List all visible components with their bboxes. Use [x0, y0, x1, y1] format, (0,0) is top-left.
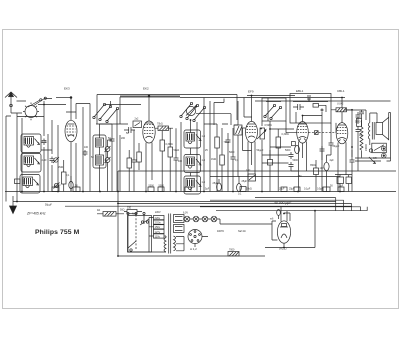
resistor R11 plate	[331, 108, 352, 157]
wire chassis bus	[5, 191, 396, 193]
decoupling box D2	[73, 187, 80, 192]
svg-text:3000: 3000	[23, 178, 25, 184]
svg-text:4-30: 4-30	[42, 159, 47, 162]
wire EF9 top lead	[247, 96, 295, 122]
decoupling box D6	[240, 187, 246, 192]
svg-text:0,3MΩ: 0,3MΩ	[166, 143, 173, 146]
wire stage1 left vertical	[6, 113, 22, 202]
svg-text:0,1µF: 0,1µF	[55, 185, 62, 188]
svg-text:0,1µF: 0,1µF	[304, 188, 311, 191]
wire bus AVC	[118, 170, 396, 172]
wire mixer verticals	[117, 97, 120, 192]
capacitor C15	[226, 133, 231, 192]
capacitor C11	[174, 128, 179, 191]
oscillator coil L4	[186, 120, 195, 155]
decoupling box D5	[185, 187, 191, 192]
mains input circles	[127, 212, 145, 214]
EBL1 stage outline	[290, 94, 331, 124]
wire EBL1 internals	[293, 98, 328, 124]
capacitor C23 electrolytic	[295, 146, 300, 154]
IF transformer T1 coils	[96, 124, 104, 192]
trimmer C14 arrow	[196, 159, 201, 165]
wire right bus hooks	[118, 198, 367, 211]
coil enclosure B	[21, 154, 41, 173]
decoupling box D10	[338, 187, 344, 192]
capacitor C24 electrolytic	[324, 155, 329, 192]
svg-text:0,5MΩ: 0,5MΩ	[265, 124, 272, 127]
volume potentiometer R7	[257, 128, 266, 139]
svg-text:150v: 150v	[155, 225, 161, 229]
coil L7	[234, 125, 242, 135]
wire IF3 verticals	[238, 98, 244, 177]
trimmer C5b	[54, 183, 60, 189]
svg-text:3000: 3000	[24, 156, 26, 162]
svg-text:20µµF: 20µµF	[333, 145, 340, 148]
svg-text:50Ω: 50Ω	[120, 209, 125, 212]
output transformer core	[372, 122, 374, 140]
svg-text:220V: 220V	[155, 211, 161, 214]
wire right edge	[389, 113, 391, 162]
svg-text:3000: 3000	[24, 137, 26, 143]
resistor R17	[357, 118, 362, 126]
mains wires	[128, 215, 144, 253]
decoupling box D4	[158, 187, 164, 192]
wire bus screen	[210, 176, 340, 178]
svg-text:EK3: EK3	[64, 87, 70, 91]
svg-text:25µF: 25µF	[213, 182, 219, 185]
osc coil enclosure B	[184, 155, 201, 173]
decoupling box D1	[52, 187, 59, 192]
coil L2	[24, 156, 34, 167]
svg-text:50kΩ: 50kΩ	[174, 149, 180, 152]
mains switch	[128, 241, 136, 251]
junction dots mid	[99, 95, 353, 257]
wire top tie right	[255, 100, 391, 102]
wire B+ drop	[265, 211, 315, 248]
trimmer C2 arrow	[35, 158, 40, 164]
coil enclosure C	[20, 175, 40, 194]
tube V2 EK2	[143, 95, 155, 191]
svg-text:6,3V: 6,3V	[183, 212, 188, 215]
band switch S1	[23, 97, 46, 120]
decoupling box D3	[148, 187, 154, 192]
variable capacitor C12	[186, 105, 197, 115]
voltage selector	[140, 219, 149, 225]
IF unit box	[133, 121, 142, 128]
svg-text:25µF: 25µF	[242, 180, 248, 183]
svg-text:150: 150	[298, 175, 303, 178]
mains box	[128, 216, 152, 253]
svg-text:20kΩ: 20kΩ	[246, 188, 252, 191]
svg-text:5000: 5000	[355, 121, 361, 124]
oscillator coil L6	[186, 179, 195, 190]
switch link dashed	[135, 215, 137, 250]
EBL1 box marks	[313, 104, 326, 113]
resistor R0	[15, 179, 21, 184]
svg-text:70kΩ: 70kΩ	[157, 123, 163, 126]
capacitor C21	[289, 152, 294, 159]
capacitor C10 coupling	[124, 127, 135, 133]
wire IF2 verticals	[210, 101, 222, 192]
wire jack bottom	[355, 158, 391, 161]
oscillator switch SA	[93, 101, 141, 124]
capacitor C17 electrolytic	[217, 179, 222, 191]
svg-text:100: 100	[84, 146, 89, 149]
wire bus heater	[65, 205, 352, 207]
field coil zigzag	[360, 120, 363, 158]
wire det ties	[262, 121, 291, 163]
pilot lamp P1	[184, 216, 190, 222]
svg-text:1MΩ: 1MΩ	[211, 158, 216, 161]
capacitor C28 electrolytic	[277, 210, 281, 220]
svg-text:5000: 5000	[159, 185, 165, 188]
trimmer C14b arrow	[196, 181, 201, 187]
svg-text:4-30: 4-30	[42, 140, 47, 143]
transformer HT secondary	[174, 236, 185, 251]
wire stage1 extra	[41, 134, 88, 192]
detector box	[262, 98, 286, 121]
resistor R8	[270, 129, 294, 192]
resistor R15	[127, 150, 132, 192]
capacitor C22	[289, 162, 299, 171]
wire det area	[262, 98, 268, 192]
tube V5 CBL1	[336, 123, 348, 192]
cathode capacitor C33	[292, 142, 296, 146]
svg-text:7000: 7000	[229, 249, 235, 252]
capacitor C29	[132, 130, 137, 192]
svg-text:50µµF: 50µµF	[45, 204, 52, 207]
capacitor C3	[42, 139, 47, 146]
wire speaker top	[344, 110, 377, 123]
svg-text:0,5µF: 0,5µF	[317, 188, 324, 191]
heater winding boxes	[174, 215, 185, 233]
svg-text:4Ω: 4Ω	[97, 209, 100, 212]
wire input top	[17, 99, 67, 117]
IF transformer T1 enclosure	[93, 135, 106, 168]
coil L1	[24, 137, 34, 148]
voltage selector stack	[149, 216, 164, 253]
wire stage1 right verticals	[76, 104, 90, 192]
svg-text:5000: 5000	[149, 185, 155, 188]
svg-text:100: 100	[320, 167, 325, 170]
component value labels	[23, 103, 377, 252]
svg-text:400Hz: 400Hz	[217, 230, 225, 233]
rectifier tube AZ1	[277, 207, 290, 248]
selector labels	[155, 216, 162, 238]
capacitor C6 electrolytic	[69, 176, 73, 192]
wire mixer top	[120, 95, 180, 97]
resistor R12 hum	[97, 212, 124, 217]
svg-text:Netz: Netz	[132, 213, 138, 216]
resistor R16	[137, 143, 142, 170]
junction dots stage1	[16, 104, 84, 203]
svg-text:1µF: 1µF	[339, 185, 344, 188]
resistor R4	[168, 128, 173, 191]
svg-text:Philips 755 M: Philips 755 M	[35, 229, 80, 236]
output cluster box1	[337, 175, 344, 192]
svg-text:20µF: 20µF	[279, 188, 285, 191]
capacitor C16	[231, 128, 236, 192]
pilot lamp P4	[211, 216, 217, 222]
wire mid tie	[100, 117, 253, 140]
svg-text:5000: 5000	[229, 151, 235, 154]
svg-text:200: 200	[121, 137, 126, 140]
svg-text:Naf 4Ω: Naf 4Ω	[238, 230, 246, 233]
oscillator coil L5	[186, 157, 195, 176]
tube socket view	[188, 230, 208, 248]
coil L3	[23, 177, 33, 188]
resistor R2	[155, 126, 173, 131]
capacitor C31	[327, 140, 334, 155]
ground chassis arrow	[10, 196, 17, 214]
trimmer C8 pair	[105, 140, 111, 192]
tube V1 EK3	[56, 97, 77, 192]
wire az1 drop	[272, 224, 277, 240]
tone capacitor C27	[350, 150, 355, 192]
wire mains riser	[118, 171, 265, 256]
svg-text:EK2: EK2	[143, 87, 149, 91]
svg-text:50µµF: 50µµF	[257, 149, 264, 152]
svg-text:150: 150	[127, 207, 132, 210]
svg-text:220v: 220v	[155, 216, 161, 220]
capacitor C9	[110, 124, 115, 192]
output cluster box2	[335, 175, 352, 192]
tiny labels	[26, 87, 345, 252]
svg-text:127v: 127v	[155, 230, 161, 234]
grid stopper box	[248, 174, 256, 181]
jack terminal B	[382, 153, 387, 158]
resistor R5	[215, 137, 220, 148]
resistor R13	[124, 210, 142, 214]
svg-text:EBL1: EBL1	[296, 89, 304, 93]
svg-text:ZF=465 kHz: ZF=465 kHz	[26, 212, 46, 216]
resistor R14	[228, 252, 239, 256]
svg-text:0,3MΩ: 0,3MΩ	[282, 133, 289, 136]
capacitor C25	[356, 112, 361, 124]
wire osc-EF9 step	[196, 99, 231, 126]
wire osc verticals	[181, 108, 204, 192]
resistor R10	[314, 160, 319, 192]
svg-text:A 1,2: A 1,2	[190, 247, 197, 251]
resistor R3	[160, 131, 165, 192]
resistor R1	[62, 160, 67, 192]
svg-text:(AZ1): (AZ1)	[279, 247, 287, 251]
svg-text:2O0v: 2O0v	[155, 221, 162, 225]
resistor R6	[220, 155, 225, 165]
capacitor C19	[293, 104, 304, 110]
wire EBL1 lower verticals	[286, 121, 336, 160]
jack terminal A	[382, 146, 387, 151]
svg-text:2x2: 2x2	[135, 118, 140, 121]
svg-text:40 000 µµF: 40 000 µµF	[274, 201, 292, 205]
pilot lamp P2	[193, 216, 199, 222]
svg-text:1kΩ: 1kΩ	[246, 169, 251, 172]
stage outline mixer	[97, 95, 237, 125]
coil enclosure A	[21, 134, 41, 153]
junction dots bus	[117, 191, 341, 249]
wire stage1 verticals	[22, 105, 58, 192]
svg-text:20000: 20000	[365, 144, 368, 151]
transformer primary winding	[128, 236, 166, 252]
resistor R9	[268, 150, 273, 192]
trimmer C2b arrow	[34, 179, 39, 185]
wire lamps	[183, 219, 272, 224]
capacitor C4	[50, 157, 55, 164]
wire grid bus tube4-5	[309, 132, 337, 134]
wire bus B+	[13, 201, 336, 203]
wire osc top	[180, 98, 345, 108]
osc coil enclosure C	[184, 176, 201, 194]
grid coupling mark	[315, 131, 319, 135]
svg-text:EF9: EF9	[248, 90, 254, 94]
decoupling box D8	[294, 187, 300, 192]
svg-text:5µF: 5µF	[205, 188, 210, 191]
wire CBL1 top	[341, 98, 343, 123]
pickup jack	[369, 143, 386, 164]
decoupling box D9	[323, 187, 330, 192]
speaker	[376, 113, 389, 140]
capacitor C30	[320, 146, 325, 192]
wire az1 area	[272, 213, 290, 224]
svg-text:CBL1: CBL1	[337, 89, 345, 93]
svg-text:25µF: 25µF	[289, 188, 295, 191]
capacitor C20	[307, 96, 311, 102]
svg-text:4µF: 4µF	[330, 159, 335, 162]
trimmer C13 arrow	[196, 135, 201, 141]
oscillator switch SB	[180, 102, 206, 121]
transformer core	[169, 214, 171, 254]
antenna	[5, 92, 17, 113]
decoupling box D7	[281, 187, 287, 192]
osc coil enclosure A	[184, 130, 201, 148]
tube V3 EF9	[246, 121, 258, 191]
svg-text:5000: 5000	[293, 159, 299, 162]
svg-text:100: 100	[178, 160, 183, 163]
svg-text:U.042: U.042	[337, 103, 344, 106]
pilot lamp P3	[202, 216, 208, 222]
choke L9	[368, 113, 370, 145]
svg-text:GR: GR	[373, 157, 377, 160]
capacitor C26	[356, 126, 361, 171]
svg-text:70kΩ: 70kΩ	[224, 141, 230, 144]
trimmer C1 arrow	[35, 139, 40, 145]
tube V4 EBL1	[297, 116, 322, 192]
trimmer C5	[53, 157, 59, 163]
tube V3 side bracket	[243, 128, 252, 151]
svg-text:350Ω: 350Ω	[310, 164, 316, 167]
capacitor C18 electrolytic	[237, 176, 242, 192]
svg-text:2MΩ: 2MΩ	[58, 166, 63, 169]
svg-text:110v: 110v	[155, 234, 161, 238]
svg-text:5000: 5000	[285, 149, 291, 152]
wire stage1 top right	[66, 104, 90, 113]
